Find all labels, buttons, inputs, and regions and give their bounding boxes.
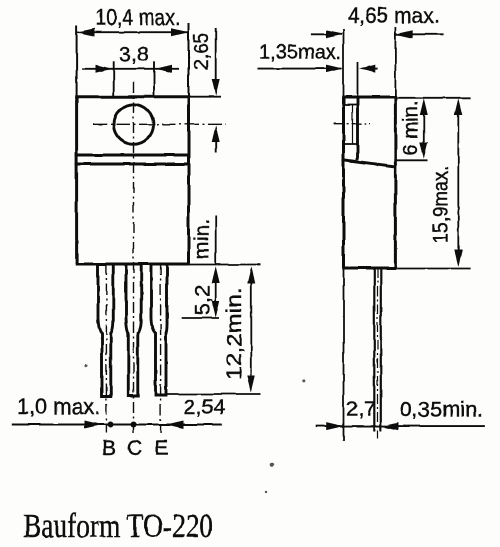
svg-text:B: B bbox=[102, 436, 116, 460]
svg-text:15,9max.: 15,9max. bbox=[430, 166, 453, 243]
svg-text:0,35min.: 0,35min. bbox=[400, 398, 484, 422]
svg-text:2,54: 2,54 bbox=[184, 395, 226, 419]
svg-text:10,4 max.: 10,4 max. bbox=[96, 5, 181, 30]
svg-text:C: C bbox=[127, 436, 143, 460]
svg-text:4,65 max.: 4,65 max. bbox=[348, 3, 440, 28]
svg-text:12,2min.: 12,2min. bbox=[223, 287, 246, 380]
svg-text:5,2: 5,2 bbox=[192, 285, 215, 316]
svg-text:1,0 max.: 1,0 max. bbox=[17, 394, 100, 419]
svg-text:E: E bbox=[154, 436, 168, 460]
svg-text:Bauform TO-220: Bauform TO-220 bbox=[23, 508, 213, 545]
svg-text:3,8: 3,8 bbox=[119, 42, 149, 66]
svg-text:6 min.: 6 min. bbox=[400, 101, 423, 156]
svg-text:2,65: 2,65 bbox=[190, 33, 213, 70]
svg-text:min.: min. bbox=[191, 219, 214, 259]
svg-text:2,7: 2,7 bbox=[346, 397, 376, 421]
svg-text:1,35max.: 1,35max. bbox=[259, 42, 342, 64]
